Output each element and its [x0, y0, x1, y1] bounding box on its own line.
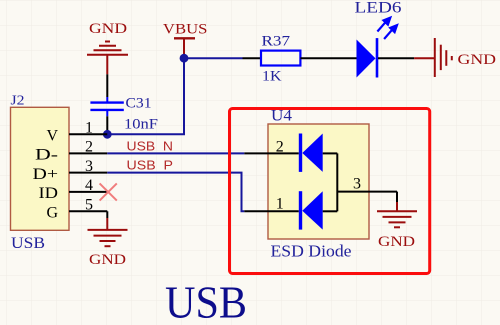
no-connect X on pin 4 [100, 183, 117, 200]
wire USB_P [107, 173, 244, 212]
power port VBUS [163, 22, 208, 57]
wire [106, 116, 108, 134]
svg-text:USB: USB [165, 278, 247, 325]
svg-text:ESD Diode: ESD Diode [271, 242, 352, 261]
svg-text:10nF: 10nF [124, 117, 158, 133]
power port GND (right of U4) [377, 202, 417, 250]
wire (R37 to LED) [300, 57, 356, 59]
wire USB_N [107, 152, 244, 154]
svg-text:4: 4 [85, 177, 93, 194]
svg-text:D+: D+ [33, 166, 59, 183]
capacitor C31 [90, 96, 158, 133]
pin 3 of U4 [337, 191, 397, 193]
svg-text:G: G [46, 205, 58, 222]
wire (pin5 to ground) [106, 211, 108, 218]
LED LED6 [355, 0, 402, 78]
svg-text:USB N: USB N [127, 139, 174, 154]
svg-text:C31: C31 [126, 96, 152, 112]
svg-text:R37: R37 [262, 33, 291, 49]
power port GND (below J2) [88, 218, 128, 268]
svg-text:2: 2 [276, 139, 284, 156]
wire (U4 pin3 down) [396, 192, 398, 202]
power port GND (right, sideways) [414, 38, 496, 77]
svg-text:LED6: LED6 [355, 0, 402, 17]
svg-text:VBUS: VBUS [163, 22, 208, 38]
svg-text:USB P: USB P [127, 158, 174, 173]
power port GND (top) [87, 21, 128, 74]
resistor R37 [261, 33, 300, 84]
svg-text:GND: GND [458, 52, 497, 68]
svg-text:1: 1 [85, 120, 93, 137]
wire inside U4 bottom [323, 210, 338, 212]
svg-text:V: V [46, 128, 58, 145]
node junction at C31/pin1 [103, 130, 112, 139]
wire VBUS net [107, 58, 242, 134]
ESD protection part U4 [244, 108, 397, 261]
LED arrow 1 [377, 18, 390, 32]
diode D-top (cathode bar + triangle) [299, 134, 302, 172]
wire inside U4 top [323, 152, 338, 154]
svg-text:GND: GND [89, 252, 126, 268]
svg-text:D-: D- [35, 147, 58, 164]
svg-text:5: 5 [85, 196, 93, 213]
wire (LED to GND) [378, 57, 414, 59]
svg-text:2: 2 [85, 139, 93, 156]
pin 2 of U4 [244, 152, 298, 154]
wire (R37 left pin) [243, 57, 262, 59]
wire [106, 74, 108, 97]
svg-text:U4: U4 [271, 108, 292, 125]
node junction at VBUS [180, 54, 189, 63]
svg-text:ID: ID [39, 185, 59, 202]
svg-text:J2: J2 [11, 94, 25, 109]
svg-text:3: 3 [353, 176, 361, 193]
red highlight box around ESD section [230, 109, 430, 274]
connector J2 [11, 94, 109, 253]
LED arrow 2 [384, 25, 397, 39]
svg-text:1K: 1K [262, 69, 282, 85]
svg-text:3: 3 [85, 158, 93, 175]
svg-text:USB: USB [11, 235, 45, 252]
wire inside U4 vertical [336, 153, 338, 211]
svg-text:GND: GND [89, 21, 127, 37]
svg-text:GND: GND [378, 234, 415, 250]
diode D-bottom (cathode bar + triangle) [299, 191, 302, 229]
svg-text:1: 1 [276, 196, 284, 213]
pin 1 of U4 [244, 210, 298, 212]
